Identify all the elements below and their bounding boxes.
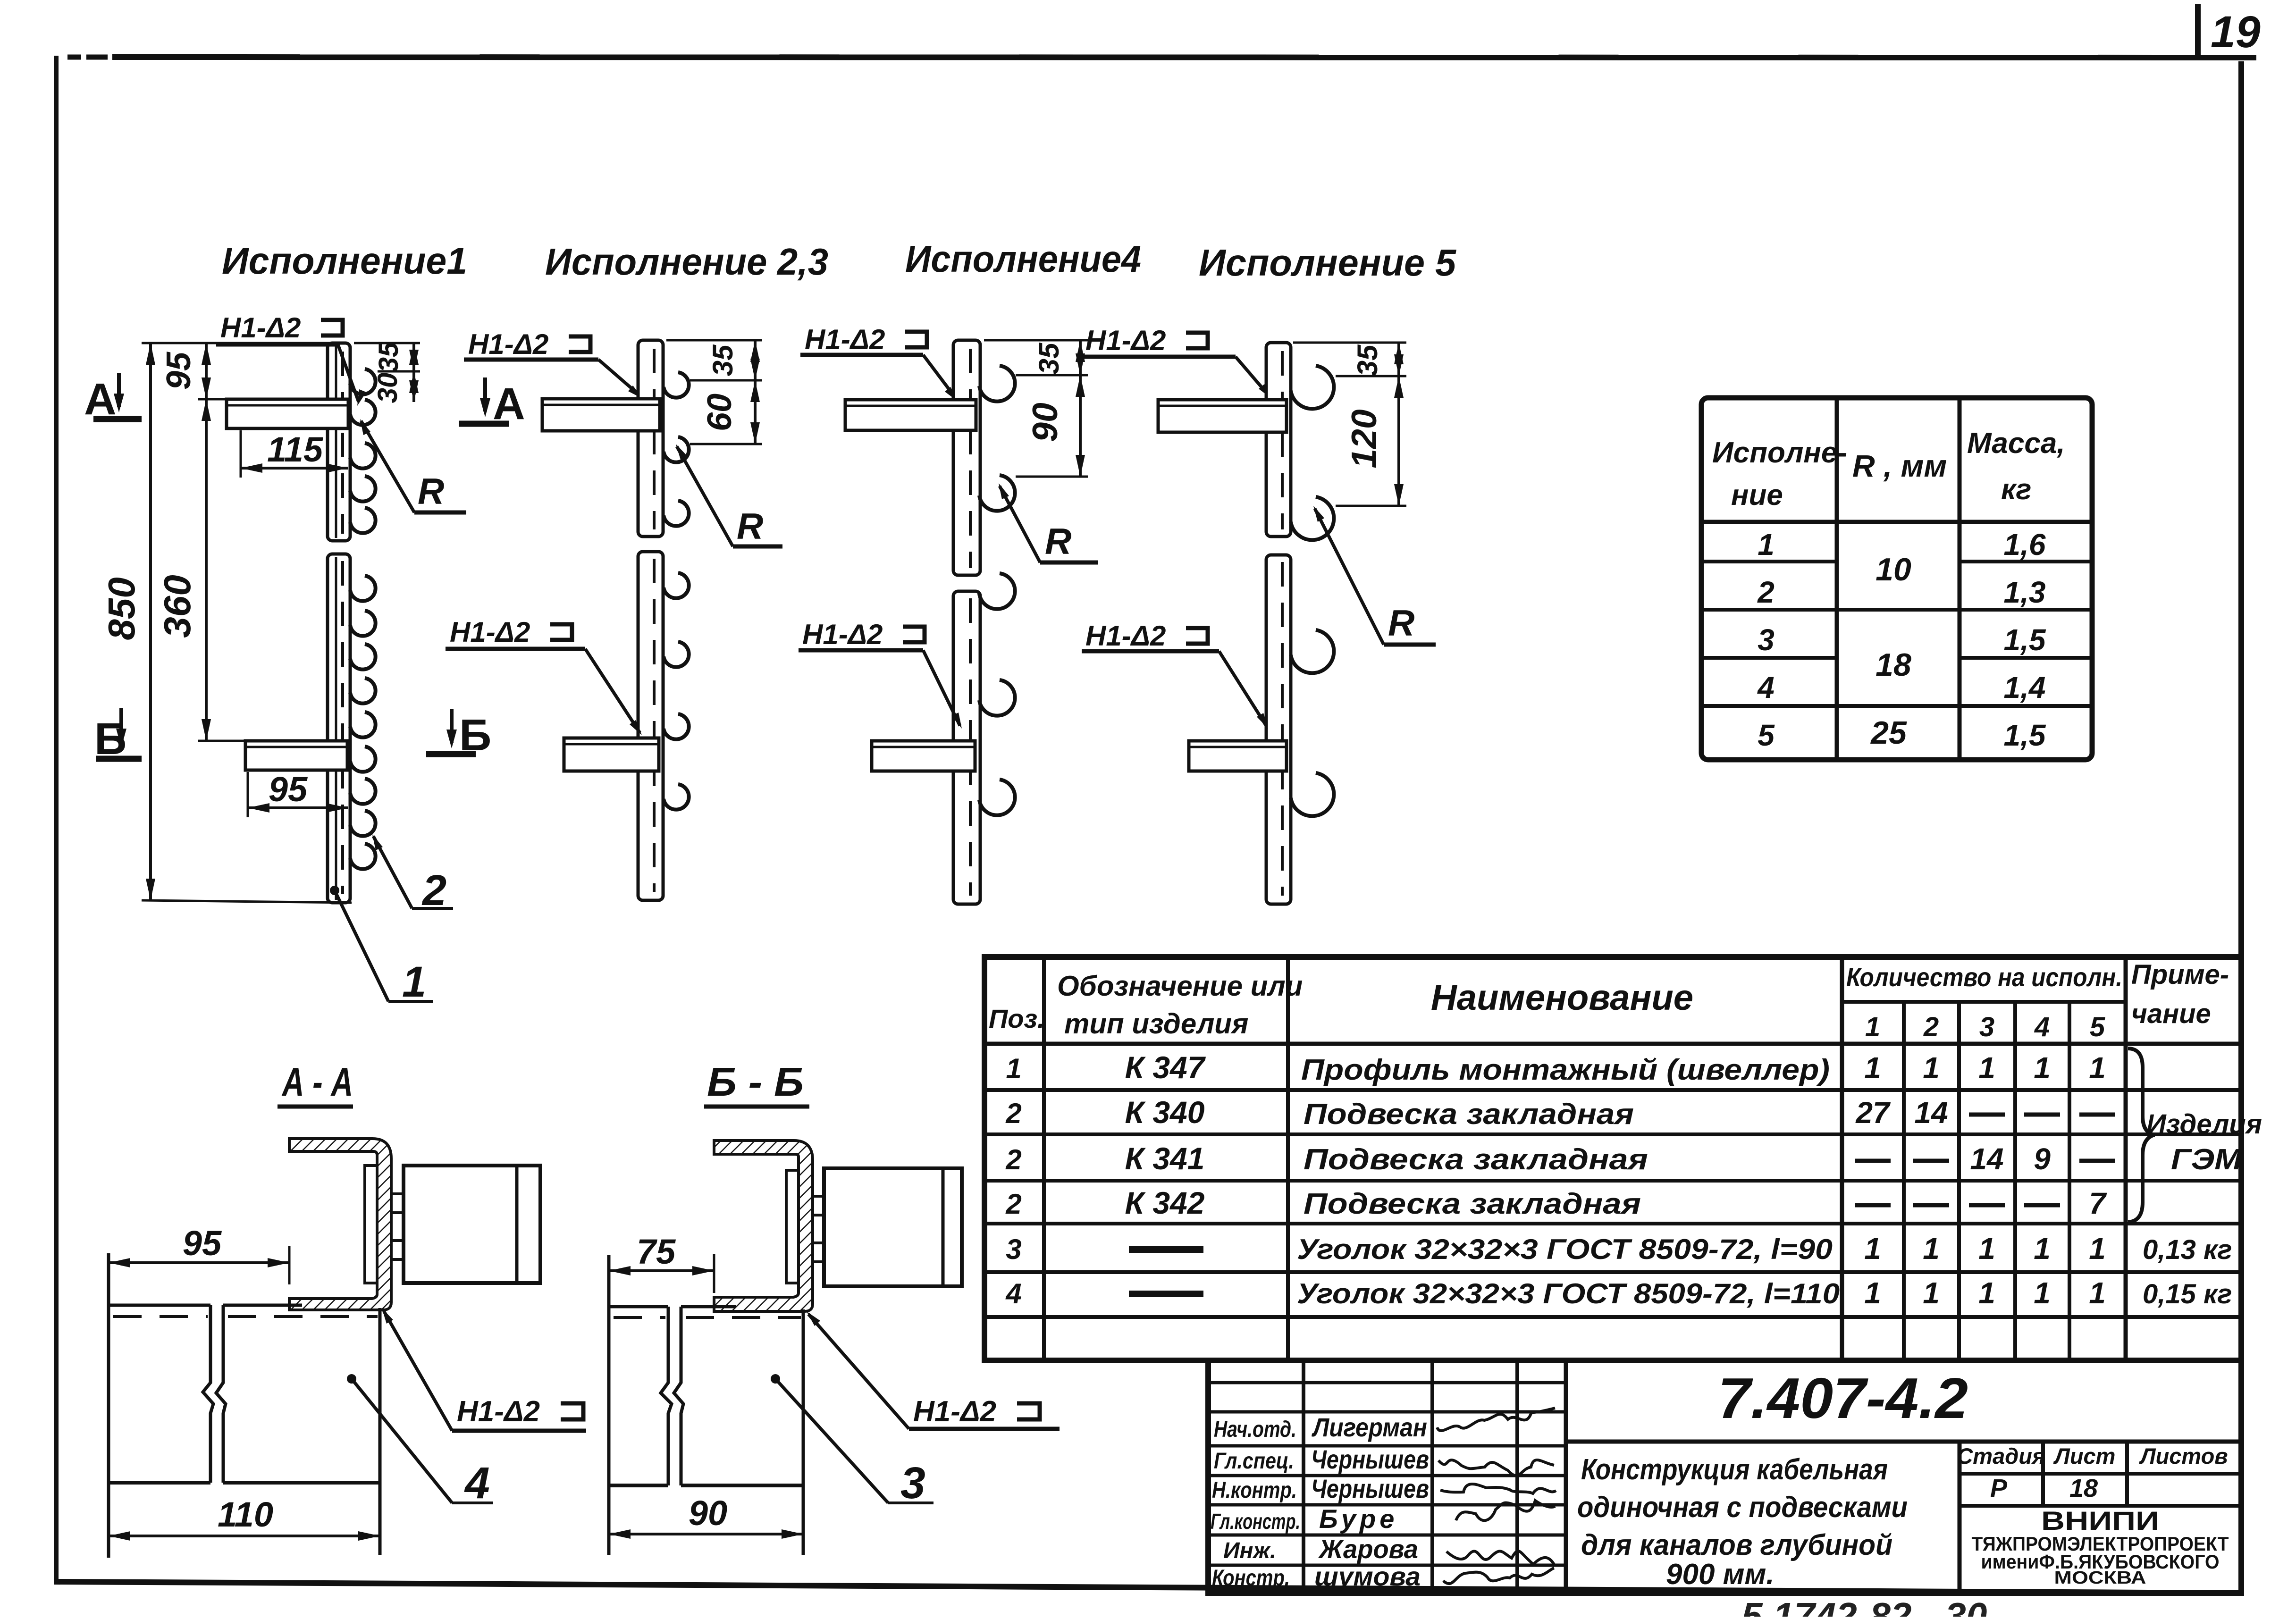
- signatures: [1437, 1408, 1555, 1431]
- svg-text:3: 3: [1006, 1233, 1021, 1265]
- svg-text:Подвеска закладная: Подвеска закладная: [1304, 1188, 1641, 1220]
- svg-text:110: 110: [218, 1495, 273, 1534]
- D2 hooks K340: [664, 372, 689, 398]
- A-A pos label 4: [347, 1374, 356, 1384]
- Б-Б dim 75: [713, 1254, 715, 1293]
- svg-text:1,6: 1,6: [2004, 528, 2046, 562]
- svg-text:Количество на исполн.: Количество на исполн.: [1846, 962, 2122, 992]
- svg-text:10: 10: [1875, 552, 1911, 587]
- svg-text:Нач.отд.: Нач.отд.: [1214, 1417, 1296, 1442]
- D1 dim 850: [149, 343, 152, 900]
- svg-text:Наименование: Наименование: [1431, 978, 1693, 1018]
- A-A dashed embed line: [113, 1315, 208, 1318]
- svg-text:19: 19: [2211, 7, 2261, 57]
- svg-text:Н1-Δ2: Н1-Δ2: [1085, 325, 1166, 356]
- page number tick: [2195, 4, 2201, 57]
- svg-text:тип изделия: тип изделия: [1064, 1008, 1248, 1040]
- svg-text:Профиль монтажный (швеллер): Профиль монтажный (швеллер): [1301, 1054, 1830, 1086]
- svg-text:Н1-Δ2: Н1-Δ2: [913, 1395, 996, 1428]
- svg-text:Исполне-: Исполне-: [1712, 436, 1847, 469]
- svg-text:R , мм: R , мм: [1852, 448, 1947, 483]
- svg-text:К 340: К 340: [1125, 1095, 1204, 1130]
- D2 channel K347: [638, 340, 663, 537]
- border frame right: [2238, 61, 2244, 1594]
- svg-text:18: 18: [1875, 647, 1911, 683]
- border frame top: [67, 55, 81, 60]
- Б-Б pos label 3: [771, 1374, 780, 1384]
- border frame left: [54, 56, 59, 1585]
- small table columns: [1835, 398, 1839, 760]
- svg-text:1,3: 1,3: [2004, 575, 2046, 609]
- svg-text:1: 1: [1864, 1276, 1881, 1310]
- border frame bottom: [54, 1582, 2243, 1593]
- svg-text:1: 1: [1978, 1232, 1995, 1266]
- svg-text:1: 1: [1978, 1276, 1995, 1310]
- big table verticals: [1042, 957, 1046, 1360]
- svg-text:Исполнение1: Исполнение1: [222, 240, 467, 282]
- svg-text:К 342: К 342: [1125, 1185, 1204, 1220]
- svg-text:1: 1: [1758, 528, 1775, 562]
- svg-text:для каналов глубиной: для каналов глубиной: [1581, 1529, 1892, 1561]
- D4 top shelf: [1158, 400, 1287, 432]
- svg-text:ВНИПИ: ВНИПИ: [2041, 1506, 2159, 1535]
- svg-text:R: R: [1045, 520, 1071, 562]
- A-A channel flange strip: [365, 1166, 377, 1283]
- svg-text:850: 850: [101, 577, 143, 640]
- A-A concrete right block: [223, 1304, 302, 1307]
- Б-Б dashed embed line: [614, 1316, 665, 1319]
- D3 bottom shelf: [872, 741, 975, 771]
- svg-text:МОСКВА: МОСКВА: [2054, 1568, 2146, 1588]
- svg-text:3: 3: [1979, 1012, 1994, 1042]
- Б-Б hanger profile (hatched): [714, 1141, 813, 1311]
- svg-text:95: 95: [160, 352, 198, 390]
- svg-text:1: 1: [2089, 1276, 2106, 1310]
- Б-Б weld tabs: [813, 1195, 824, 1198]
- big table header lines: [1842, 1000, 2126, 1004]
- svg-text:120: 120: [1344, 409, 1384, 468]
- A-A weld tabs: [391, 1192, 404, 1195]
- svg-text:14: 14: [1914, 1096, 1948, 1130]
- svg-text:кг: кг: [2001, 473, 2032, 506]
- svg-text:95: 95: [183, 1224, 222, 1263]
- small table header line: [1701, 520, 2092, 524]
- svg-text:1: 1: [2034, 1051, 2051, 1085]
- svg-text:Уголок 32×32×3 ГОСТ 8509-72, l: Уголок 32×32×3 ГОСТ 8509-72, l=110: [1297, 1278, 1840, 1309]
- D4 dims 35 120: [1293, 342, 1406, 344]
- svg-text:Н1-Δ2: Н1-Δ2: [450, 616, 530, 648]
- svg-text:1: 1: [2089, 1232, 2106, 1266]
- svg-text:А - А: А - А: [281, 1060, 353, 1105]
- svg-text:4: 4: [2034, 1012, 2050, 1042]
- D3 top shelf: [845, 400, 976, 430]
- svg-text:3: 3: [1758, 623, 1775, 657]
- svg-text:5.1742-82 - 30: 5.1742-82 - 30: [1741, 1595, 1987, 1617]
- title block outline: [1208, 1360, 2241, 1593]
- svg-text:1: 1: [1923, 1276, 1940, 1310]
- svg-text:Р: Р: [1990, 1474, 2008, 1502]
- svg-text:1: 1: [1006, 1053, 1021, 1084]
- svg-text:2: 2: [1757, 575, 1775, 609]
- svg-text:2: 2: [1923, 1012, 1939, 1042]
- svg-text:Буре: Буре: [1319, 1504, 1398, 1534]
- svg-text:чание: чание: [2131, 998, 2211, 1029]
- svg-text:4: 4: [464, 1458, 490, 1508]
- svg-text:Н.контр.: Н.контр.: [1212, 1478, 1297, 1503]
- svg-text:Лист: Лист: [2053, 1443, 2116, 1468]
- svg-text:Н1-Δ2: Н1-Δ2: [468, 328, 548, 360]
- D1 top shelf: [227, 399, 348, 428]
- svg-text:7: 7: [2089, 1186, 2107, 1220]
- svg-text:2: 2: [1005, 1098, 1021, 1129]
- svg-text:9: 9: [2034, 1142, 2051, 1176]
- D1 dims 35 30: [354, 342, 420, 344]
- svg-text:360: 360: [156, 575, 198, 638]
- sig table rows: [1208, 1381, 1566, 1384]
- D1 dim 95 bottom: [247, 772, 249, 817]
- D1 pos label 1: [330, 886, 339, 895]
- svg-text:1: 1: [1923, 1051, 1940, 1085]
- svg-text:1: 1: [1864, 1051, 1881, 1085]
- svg-text:Приме-: Приме-: [2131, 959, 2229, 990]
- D2 section mark Б: [450, 709, 454, 743]
- svg-text:2: 2: [1005, 1144, 1021, 1175]
- svg-text:Гл.констр.: Гл.констр.: [1211, 1509, 1300, 1534]
- A-A concrete left block: [107, 1253, 110, 1558]
- svg-text:Исполнение 2,3: Исполнение 2,3: [545, 241, 828, 283]
- svg-text:Н1-Δ2: Н1-Δ2: [1085, 620, 1166, 652]
- svg-text:Жарова: Жарова: [1318, 1534, 1418, 1564]
- svg-text:0,13 кг: 0,13 кг: [2143, 1234, 2232, 1265]
- svg-text:ГЭМ: ГЭМ: [2171, 1143, 2243, 1176]
- D1 dim 850 extension lines: [142, 342, 330, 344]
- svg-text:25: 25: [1870, 715, 1907, 751]
- D1 dim 360: [205, 399, 208, 741]
- A-A channel K347 cross-section: [404, 1166, 540, 1283]
- svg-text:1: 1: [402, 958, 426, 1006]
- svg-text:шумова: шумова: [1314, 1561, 1421, 1591]
- svg-text:одиночная с подвесками: одиночная с подвесками: [1577, 1491, 1908, 1524]
- svg-text:75: 75: [637, 1232, 676, 1271]
- D2 bottom shelf: [564, 738, 659, 771]
- svg-text:Инж.: Инж.: [1223, 1538, 1276, 1563]
- A-A dim 95: [288, 1246, 291, 1284]
- D4 bottom shelf: [1189, 741, 1287, 771]
- sig table verticals: [1302, 1360, 1305, 1593]
- Б-Б concrete right block: [681, 1305, 736, 1309]
- svg-text:35: 35: [1033, 342, 1065, 374]
- svg-text:Поз.: Поз.: [989, 1004, 1045, 1033]
- D4 channel K347: [1266, 343, 1291, 537]
- big table row lines: [984, 1088, 2241, 1092]
- svg-text:Стадия: Стадия: [1957, 1443, 2045, 1468]
- svg-text:Конструкция кабельная: Конструкция кабельная: [1581, 1453, 1888, 1486]
- svg-text:35: 35: [1352, 344, 1383, 376]
- small table R/Masse outline: [1701, 398, 2092, 760]
- svg-text:90: 90: [1025, 403, 1065, 442]
- svg-text:1: 1: [1865, 1012, 1880, 1042]
- svg-text:Н1-Δ2: Н1-Δ2: [802, 619, 883, 650]
- svg-text:R: R: [737, 505, 763, 547]
- svg-text:К 341: К 341: [1125, 1141, 1204, 1176]
- svg-text:R: R: [418, 470, 444, 512]
- svg-text:Н1-Δ2: Н1-Δ2: [220, 312, 301, 344]
- svg-text:Подвеска закладная: Подвеска закладная: [1304, 1098, 1634, 1131]
- svg-text:1,5: 1,5: [2004, 623, 2046, 657]
- svg-text:0,15 кг: 0,15 кг: [2143, 1279, 2232, 1309]
- D1 pos label 2: [373, 836, 412, 908]
- svg-text:18: 18: [2069, 1474, 2098, 1502]
- svg-text:1,5: 1,5: [2004, 718, 2046, 752]
- D3 hooks K341: [979, 366, 1015, 402]
- D2 section mark A: [483, 377, 487, 411]
- Б-Б concrete left block: [607, 1255, 611, 1555]
- stage/sheet table: [1958, 1442, 1962, 1593]
- svg-text:30: 30: [372, 373, 403, 403]
- svg-text:1: 1: [1923, 1232, 1940, 1266]
- small table row lines: [1701, 560, 1837, 563]
- svg-text:4: 4: [1757, 671, 1775, 705]
- A-A dim 110: [109, 1535, 380, 1537]
- svg-text:Лигерман: Лигерман: [1311, 1412, 1427, 1442]
- svg-text:1,4: 1,4: [2004, 671, 2046, 705]
- svg-text:Листов: Листов: [2139, 1443, 2228, 1468]
- Б-Б channel K347 cross-section: [824, 1168, 962, 1286]
- D2 top shelf: [542, 399, 660, 431]
- A-A hanger profile (hatched): [289, 1139, 391, 1310]
- D3 channel K347: [953, 340, 980, 575]
- svg-text:95: 95: [269, 770, 308, 809]
- svg-text:14: 14: [1970, 1142, 2003, 1176]
- svg-text:7.407-4.2: 7.407-4.2: [1718, 1366, 1968, 1430]
- svg-text:1: 1: [1978, 1051, 1995, 1085]
- svg-text:Гл.спец.: Гл.спец.: [1214, 1449, 1294, 1474]
- svg-text:90: 90: [689, 1493, 727, 1533]
- svg-text:5: 5: [1758, 718, 1775, 752]
- svg-text:5: 5: [2090, 1012, 2105, 1042]
- svg-text:60: 60: [701, 394, 739, 431]
- svg-text:Н1-Δ2: Н1-Δ2: [457, 1395, 540, 1428]
- svg-text:Констр.: Констр.: [1212, 1566, 1290, 1591]
- svg-text:27: 27: [1855, 1096, 1891, 1130]
- svg-text:Уголок 32×32×3 ГОСТ 8509-72, l: Уголок 32×32×3 ГОСТ 8509-72, l=90: [1297, 1233, 1833, 1265]
- svg-text:2: 2: [1005, 1188, 1021, 1220]
- D1 bottom shelf: [245, 741, 347, 770]
- svg-text:3: 3: [900, 1458, 925, 1508]
- svg-text:Исполнение 5: Исполнение 5: [1199, 242, 1456, 284]
- Б-Б channel flange strip: [786, 1170, 799, 1283]
- D1 dim 115: [240, 430, 242, 478]
- svg-text:35: 35: [373, 342, 404, 372]
- svg-text:1: 1: [1864, 1232, 1881, 1266]
- svg-text:Исполнение4: Исполнение4: [905, 238, 1141, 280]
- D3 dims 35 90: [984, 339, 1088, 342]
- D2 dims 35 60: [666, 339, 762, 342]
- svg-text:4: 4: [1005, 1278, 1021, 1309]
- Б-Б dim 90: [609, 1533, 803, 1535]
- svg-text:1: 1: [2089, 1051, 2106, 1085]
- svg-text:R: R: [1388, 602, 1414, 644]
- svg-text:К 347: К 347: [1125, 1050, 1206, 1085]
- svg-text:Подвеска закладная: Подвеска закладная: [1304, 1143, 1648, 1176]
- svg-text:115: 115: [267, 430, 324, 469]
- svg-text:Изделия: Изделия: [2146, 1109, 2262, 1140]
- svg-text:1: 1: [2034, 1276, 2051, 1310]
- big table brace: [2128, 1049, 2154, 1222]
- svg-text:1: 1: [2034, 1232, 2051, 1266]
- D4 hooks K342: [1291, 366, 1334, 409]
- D1 channel K347: [328, 343, 350, 541]
- svg-text:Н1-Δ2: Н1-Δ2: [805, 324, 885, 355]
- svg-text:Чернышев: Чернышев: [1311, 1444, 1429, 1474]
- svg-text:900 мм.: 900 мм.: [1666, 1558, 1775, 1591]
- svg-text:Чернышев: Чернышев: [1311, 1474, 1429, 1503]
- svg-text:2: 2: [421, 866, 446, 914]
- svg-text:35: 35: [707, 344, 739, 376]
- svg-text:Масса,: Масса,: [1967, 427, 2065, 460]
- svg-text:Б - Б: Б - Б: [707, 1060, 804, 1105]
- svg-text:Обозначение или: Обозначение или: [1057, 970, 1303, 1002]
- D1 dim 95 top: [205, 343, 208, 399]
- svg-text:ние: ние: [1731, 479, 1783, 512]
- D1 hooks K340: [350, 369, 376, 394]
- big table outline: [984, 957, 2241, 1360]
